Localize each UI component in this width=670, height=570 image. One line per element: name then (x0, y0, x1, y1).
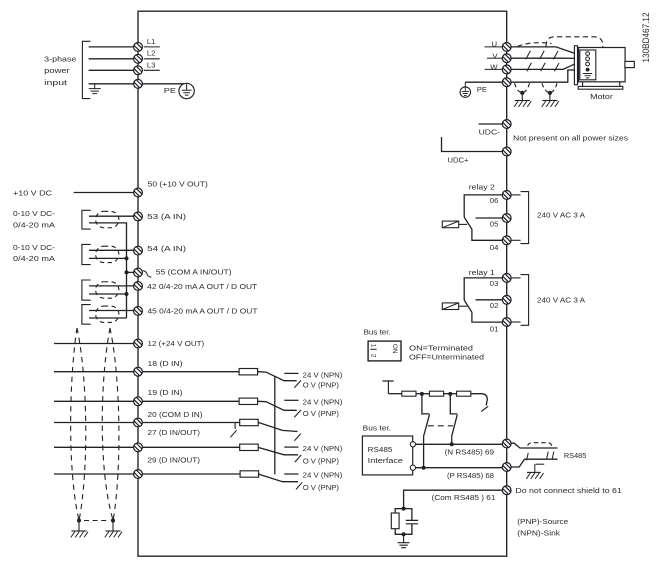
motor terminal box (580, 50, 596, 80)
24V dash 18 (284, 372, 298, 374)
switch stub 20 (234, 423, 236, 430)
termination switch 2 (450, 394, 457, 444)
svg-text:240 V AC 3 A: 240 V AC 3 A (537, 296, 586, 305)
svg-text:45 0/4-20 mA A OUT / D OUT: 45 0/4-20 mA A OUT / D OUT (148, 307, 258, 316)
terminal PE right (502, 78, 511, 87)
svg-text:(P RS485) 68: (P RS485) 68 (447, 471, 494, 480)
switch blade 20 (230, 430, 236, 437)
svg-text:Bus ter.: Bus ter. (363, 423, 391, 432)
open switch blade right (481, 406, 488, 411)
svg-text:55 (COM A IN/OUT): 55 (COM A IN/OUT) (156, 267, 232, 276)
svg-text:0-10 V DC-: 0-10 V DC- (13, 209, 55, 218)
wire stub UDC- (479, 123, 503, 125)
svg-text:Motor: Motor (590, 92, 613, 101)
wire P RS485 (415, 467, 502, 469)
fork slash 27 (295, 455, 301, 462)
wire 27 to resistor (143, 446, 240, 448)
wire 53 bottom (89, 223, 127, 259)
junction dot term 2 (448, 392, 452, 396)
svg-text:input: input (44, 78, 68, 87)
junction dot N (450, 442, 454, 446)
terminal L1 (134, 43, 143, 52)
terminal V (97) (502, 54, 511, 63)
cable tick 2 (547, 452, 554, 460)
transducer bracket 42 (82, 280, 91, 300)
resistor RC (391, 513, 399, 529)
cable shield dashed cap (546, 37, 603, 48)
terminal 53 (134, 212, 143, 221)
wire to terminal 12 (54, 343, 134, 345)
drain stub left (521, 93, 523, 101)
tag line U (485, 46, 503, 48)
chassis ground bundle right (105, 531, 122, 537)
svg-text:Do not connect shield to 61: Do not connect shield to 61 (515, 486, 621, 495)
wire 29 after resistor (259, 474, 299, 482)
wire 69 cable (511, 443, 558, 448)
junction dot 42 (125, 292, 129, 296)
relay 2 common stub 05 (476, 217, 503, 219)
relay 2 bracket stub top (511, 194, 520, 196)
wire 27 after resistor (258, 447, 298, 454)
control cable dashed bundle line 3 (102, 328, 112, 519)
earth ground on PE input wire (94, 84, 96, 89)
svg-text:24 V (NPN): 24 V (NPN) (303, 471, 343, 480)
DIP lever mark (370, 348, 376, 350)
RC right branch (404, 509, 412, 521)
svg-text:03: 03 (490, 279, 499, 288)
junction dot 54 (125, 256, 129, 260)
svg-text:01: 01 (490, 324, 499, 333)
wire left 27 (54, 446, 134, 448)
relay 1 coil link (459, 305, 468, 307)
relay 2 bracket stub bottom (511, 239, 520, 241)
dashed link between drains (84, 520, 108, 522)
24V dash 27 (284, 446, 298, 448)
motor shaft (625, 61, 634, 67)
motor feet (583, 82, 620, 87)
motor cable crossing ticks (526, 51, 558, 60)
terminal 12 (134, 339, 143, 348)
wire 18 after resistor (258, 372, 297, 381)
RC left branch (395, 509, 403, 513)
svg-text:04: 04 (490, 243, 499, 252)
terminal 42 (134, 282, 143, 291)
svg-text:24 V (NPN): 24 V (NPN) (303, 371, 343, 380)
earth ground RC (398, 543, 410, 548)
resistor R3 termination (457, 391, 471, 396)
terminal 45 (134, 307, 143, 316)
motor base (578, 86, 623, 89)
fork slash 18 (294, 380, 301, 387)
wire 19 after resistor (258, 401, 297, 410)
RC right bottom (404, 524, 412, 535)
drain stub right (549, 93, 551, 101)
transducer bracket 53 (82, 210, 91, 229)
wire 42 bottom (89, 293, 127, 295)
terminal 61 (502, 486, 511, 495)
resistor R2 termination (429, 391, 443, 396)
svg-text:0/4-20 mA: 0/4-20 mA (13, 220, 56, 229)
wire PE terminal to PE symbol (143, 83, 184, 85)
wire 54 bottom (89, 257, 127, 259)
chassis ground bundle left (71, 531, 88, 537)
svg-text:Bus ter.: Bus ter. (364, 327, 391, 336)
relay 2 coil link (459, 223, 468, 225)
terminal PE left (134, 79, 143, 88)
port circle P (410, 465, 415, 470)
wire after R3 (471, 394, 488, 406)
relay 2 coil (442, 221, 458, 228)
protective earth symbol left (179, 83, 194, 98)
wire U to motor (511, 47, 574, 53)
svg-text:0/4-20 mA: 0/4-20 mA (13, 254, 56, 263)
terminal 01 (502, 318, 511, 327)
svg-text:UDC-: UDC- (479, 127, 501, 136)
bundle drain dot right (111, 518, 115, 522)
dashed bridge over 69 wire (528, 443, 552, 446)
svg-text:OFF=Unterminated: OFF=Unterminated (409, 353, 484, 362)
svg-text:(PNP)-Source: (PNP)-Source (517, 517, 568, 526)
relay 2 bracket (521, 192, 529, 244)
svg-text:(NPN)-Sink: (NPN)-Sink (517, 529, 560, 538)
svg-text:24 V (NPN): 24 V (NPN) (303, 398, 343, 407)
cable shield dashed arc over U (518, 43, 552, 47)
svg-text:relay 2: relay 2 (469, 183, 495, 192)
relay 2 wire from terminal 06 (464, 195, 503, 217)
junction dot RC top (402, 507, 406, 511)
terminal 02 (502, 295, 511, 304)
terminal L2 (134, 54, 143, 63)
svg-text:18 (D IN): 18 (D IN) (148, 359, 183, 368)
drain stub right bundle (112, 521, 114, 532)
wire 18 to resistor (143, 371, 239, 373)
terminal 18 (134, 367, 143, 376)
resistor 19 (239, 398, 258, 404)
svg-text:24 V (NPN): 24 V (NPN) (303, 444, 343, 453)
motor terminal circles (586, 52, 590, 66)
terminal 27 (134, 443, 143, 452)
fork slash 19 (294, 410, 301, 417)
wire PE terminal to PE symbol right (465, 81, 502, 83)
relay 1 coil (442, 303, 458, 310)
svg-text:W: W (490, 63, 498, 72)
svg-text:29 (D IN/OUT): 29 (D IN/OUT) (148, 455, 201, 464)
control cable dashed bundle line 2 (77, 328, 86, 519)
transducer dashed capsule 42 (96, 282, 119, 298)
tag line L1 (144, 46, 160, 48)
svg-text:relay 1: relay 1 (469, 268, 495, 277)
chassis ground cable right (542, 101, 559, 107)
bundle drain dot left (77, 518, 81, 522)
wire L2 (89, 58, 134, 60)
junction dot P (422, 466, 426, 470)
svg-text:(N RS485) 69: (N RS485) 69 (445, 448, 494, 457)
wire to R1 (388, 393, 401, 395)
wire 45 bottom (89, 317, 127, 319)
svg-text:12 (+24 V OUT): 12 (+24 V OUT) (148, 339, 205, 348)
svg-text:PE: PE (477, 85, 487, 94)
motor earth bars (583, 74, 592, 78)
wire PE input (89, 83, 134, 85)
termination stub T (383, 381, 394, 394)
terminal 19 (134, 397, 143, 406)
resistor 29 (240, 471, 259, 477)
wire left 29 (54, 473, 134, 475)
junction dot term 1 (420, 392, 424, 396)
transducer bracket 45 (82, 305, 91, 325)
svg-text:130BD467.12: 130BD467.12 (641, 12, 651, 62)
terminal 50 (134, 188, 143, 197)
svg-text:O V (PNP): O V (PNP) (303, 456, 340, 465)
svg-text:UDC+: UDC+ (448, 156, 469, 165)
wire N RS485 (415, 443, 502, 445)
tag line L2 (144, 58, 160, 60)
capacitor RC (406, 520, 418, 523)
terminal U (96) (502, 43, 511, 52)
cable ground stub (534, 464, 536, 472)
drain stub left bundle (78, 521, 80, 532)
wire R1-R2 (416, 393, 429, 395)
svg-text:O V (PNP): O V (PNP) (303, 380, 340, 389)
shield drain dashed funnel left (515, 83, 522, 92)
ganged link dashed (428, 425, 453, 427)
terminal 05 (502, 214, 511, 223)
svg-text:RS485: RS485 (368, 445, 393, 454)
terminal 54 (134, 246, 143, 255)
24V dash 19 (284, 399, 298, 401)
svg-text:O V (PNP): O V (PNP) (303, 483, 340, 492)
wire 53 top (89, 215, 134, 217)
relay 1 bracket (521, 275, 529, 326)
shield drain dashed funnel right (542, 83, 549, 92)
RC left bottom (395, 529, 403, 535)
shield drain dot left (520, 91, 524, 95)
earth ground (89, 89, 101, 94)
control cable dashed bundle line 4 (110, 328, 119, 519)
relay 1 bracket stub bottom (511, 321, 520, 323)
relay 2 moving contact (464, 217, 503, 240)
svg-text:1: 1 (370, 344, 377, 348)
terminal 55 (134, 268, 143, 277)
transducer dashed capsule 45 (96, 306, 119, 322)
svg-text:L2: L2 (147, 49, 156, 58)
tag line V (487, 57, 502, 59)
svg-text:240 V AC 3 A: 240 V AC 3 A (537, 210, 586, 219)
svg-text:L1: L1 (147, 37, 156, 46)
digital common vertical (274, 376, 276, 474)
drive enclosure outline (138, 11, 507, 556)
wire 42 top (89, 285, 134, 287)
svg-text:O V (PNP): O V (PNP) (303, 409, 340, 418)
transducer dashed capsule 54 (96, 246, 119, 262)
wire 68 cable (511, 459, 558, 467)
resistor 20 (240, 419, 259, 425)
wire L1 (89, 46, 134, 48)
relay 1 common stub 02 (476, 299, 503, 301)
resistor R1 termination (402, 391, 416, 396)
svg-text:3-phase: 3-phase (44, 54, 76, 63)
fork slash 20 (294, 434, 300, 441)
svg-text:Interface: Interface (368, 456, 403, 465)
RS485 interface box (362, 436, 412, 475)
transducer bracket 54 (82, 244, 91, 264)
relay 1 wire from terminal 03 (464, 278, 503, 300)
wire 54 top (89, 249, 134, 251)
motor PE dot (586, 68, 590, 72)
svg-text:power: power (44, 66, 70, 75)
wire V to motor (511, 57, 574, 59)
terminal L3 (134, 66, 143, 75)
svg-text:20 (COM D IN): 20 (COM D IN) (148, 410, 203, 419)
svg-text:ON: ON (391, 344, 398, 354)
tag line W (485, 68, 503, 70)
wire left 20 (54, 422, 134, 424)
motor M terminal plate (574, 46, 577, 85)
motor body (579, 48, 626, 82)
wire left 18 (54, 371, 134, 373)
shield drain dot right (548, 91, 552, 95)
svg-text:PE: PE (164, 86, 176, 95)
wire UDC+ (442, 137, 503, 152)
terminal 20 (134, 418, 143, 427)
terminal UDC- (502, 120, 511, 129)
termination switch 1 (422, 394, 430, 468)
wire 45 top (89, 310, 134, 312)
analog common bus (126, 258, 128, 318)
terminal 03 (502, 274, 511, 283)
svg-text:ON=Terminated: ON=Terminated (409, 343, 473, 352)
chassis ground RS485 cable (526, 472, 543, 478)
svg-text:05: 05 (490, 219, 499, 228)
svg-text:54 (A IN): 54 (A IN) (147, 244, 186, 253)
transducer dashed capsule 53 (96, 211, 119, 227)
port circle N (410, 442, 415, 447)
fork slash 29 (296, 482, 302, 489)
wire to terminal 50 (74, 192, 134, 194)
wire Com RS485 (404, 490, 503, 508)
relay 1 moving contact (464, 300, 503, 322)
terminal UDC+ (502, 147, 511, 156)
DIP switch body (368, 341, 401, 361)
svg-text:53 (A IN): 53 (A IN) (147, 212, 186, 221)
svg-text:V: V (492, 51, 498, 60)
svg-text:L3: L3 (147, 61, 156, 70)
svg-text:02: 02 (490, 301, 499, 310)
wire 20 after resistor (258, 422, 297, 431)
svg-text:50 (+10 V OUT): 50 (+10 V OUT) (148, 179, 209, 188)
control cable dashed bundle line 1 (71, 328, 79, 519)
wire 19 to resistor (143, 400, 239, 402)
terminal 29 (134, 470, 143, 479)
24V dash 29 (284, 473, 298, 475)
junction dot RC bottom (402, 532, 406, 536)
wire left 19 (54, 400, 134, 402)
svg-text:Not present on all power sizes: Not present on all power sizes (513, 134, 628, 143)
relay 1 bracket stub top (511, 277, 520, 279)
cable tick 1 (527, 453, 529, 461)
terminal W (98) (502, 65, 511, 74)
input bracket (82, 41, 90, 98)
wire 29 to resistor (143, 473, 240, 475)
resistor 27 (240, 444, 259, 450)
resistor 18 (239, 369, 258, 375)
terminal 06 (502, 191, 511, 200)
wire to terminal 55 (127, 271, 134, 273)
svg-text:42 0/4-20 mA A OUT / D OUT: 42 0/4-20 mA A OUT / D OUT (147, 282, 257, 291)
svg-text:19 (D IN): 19 (D IN) (148, 388, 183, 397)
svg-text:RS485: RS485 (564, 451, 586, 460)
svg-text:0-10 V DC-: 0-10 V DC- (13, 243, 55, 252)
wire R2-R3 (444, 393, 457, 395)
RC ground stub (403, 534, 405, 542)
terminal 04 (502, 236, 511, 245)
svg-text:(Com RS485 ) 61: (Com RS485 ) 61 (432, 493, 496, 502)
svg-text:2: 2 (370, 354, 377, 358)
tag line L3 (144, 69, 160, 71)
wire motor PE (511, 70, 574, 82)
svg-text:+10 V DC: +10 V DC (13, 189, 53, 198)
wire L3 (89, 69, 134, 71)
protective earth symbol right (460, 82, 470, 97)
svg-text:06: 06 (490, 196, 499, 205)
wire W to motor (511, 64, 574, 69)
chassis ground cable left (514, 101, 531, 107)
cable dash below (536, 463, 545, 465)
terminal 68 (502, 463, 511, 472)
terminal 69 (502, 439, 511, 448)
wire 20 to resistor (143, 422, 240, 424)
svg-text:27 (D IN/OUT): 27 (D IN/OUT) (148, 428, 201, 437)
squiggle 55 (143, 271, 152, 278)
junction dot 55 (125, 270, 129, 274)
